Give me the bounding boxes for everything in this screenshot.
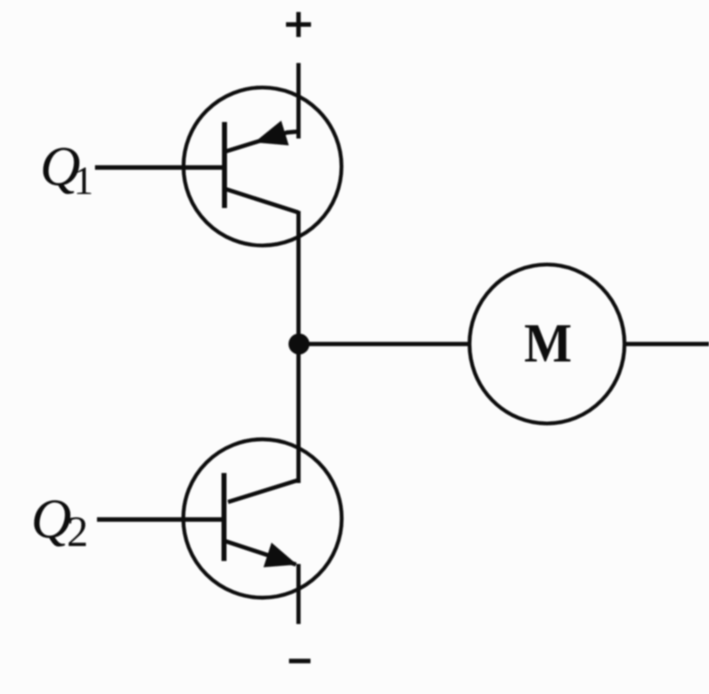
- svg-text:M: M: [524, 314, 572, 374]
- svg-text:1: 1: [74, 158, 94, 203]
- svg-text:Q: Q: [31, 489, 71, 551]
- svg-text:2: 2: [67, 509, 89, 556]
